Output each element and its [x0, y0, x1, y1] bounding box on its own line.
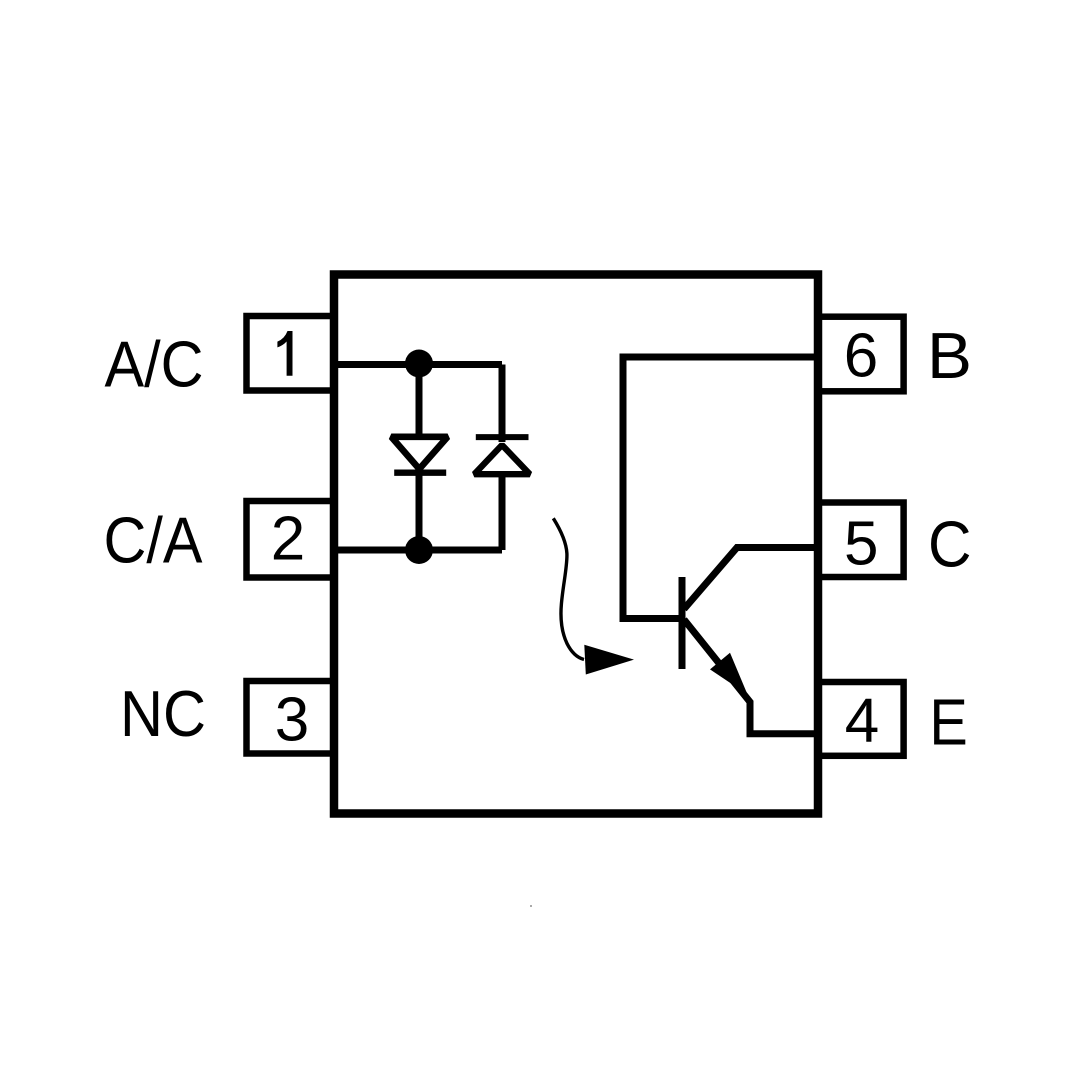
- pin 5 box: [818, 503, 904, 578]
- pin 2 box: [247, 501, 335, 578]
- pin 3 box: [247, 681, 335, 754]
- wire pin2 to node 2: [334, 547, 502, 554]
- wire pin1 to anode node: [334, 361, 502, 368]
- svg-text:4: 4: [845, 686, 879, 755]
- junction dot node 1: [405, 350, 433, 378]
- pin 1 number: [277, 331, 292, 376]
- pin 6 box: [818, 317, 904, 392]
- svg-text:3: 3: [275, 686, 309, 755]
- LED D2 triangle (anode bottom, pointing up): [474, 445, 530, 474]
- svg-text:6: 6: [844, 321, 878, 390]
- svg-text:B: B: [927, 319, 972, 392]
- emitter arrowhead: [710, 653, 748, 695]
- LED D1 triangle (anode top, pointing down): [391, 437, 447, 469]
- wire right branch down to D2 cathode: [499, 365, 506, 443]
- speck artifact: [530, 905, 532, 907]
- svg-text:E: E: [929, 685, 967, 758]
- svg-text:C: C: [928, 507, 972, 580]
- svg-text:2: 2: [271, 505, 305, 574]
- svg-text:NC: NC: [120, 677, 206, 750]
- transistor Q1 base bar: [679, 577, 686, 669]
- pin 4 box: [818, 682, 904, 756]
- wire emitter to pin4: [684, 620, 818, 734]
- wire D2 anode down to node 2: [499, 474, 506, 550]
- light coupling arrowhead: [584, 645, 634, 675]
- IC body U1: [334, 275, 818, 814]
- svg-text:C/A: C/A: [104, 504, 204, 577]
- svg-text:A/C: A/C: [105, 328, 204, 401]
- wire left branch down to D1 anode: [416, 365, 423, 438]
- light coupling arrow curve: [553, 518, 584, 659]
- LED D2 cathode bar: [476, 434, 529, 440]
- pin 1 box: [247, 316, 335, 391]
- LED D1 cathode bar: [394, 470, 446, 476]
- junction dot node 2: [405, 536, 433, 564]
- wire base from pin6: [623, 357, 818, 619]
- svg-text:5: 5: [844, 510, 878, 579]
- wire collector to pin5: [684, 548, 818, 610]
- wire D1 cathode down to node 2: [416, 472, 423, 550]
